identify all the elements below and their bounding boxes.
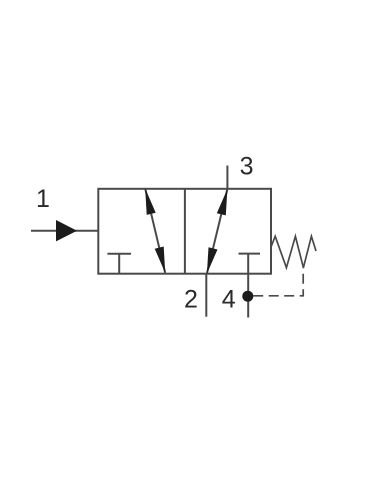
pilot line (dashed) <box>253 268 303 296</box>
svg-text:1: 1 <box>36 185 50 213</box>
arrowhead left-bottom <box>155 247 166 273</box>
blocked port T with port 4 wire <box>239 254 261 318</box>
wire port 1 <box>31 230 98 232</box>
flow path arrow (left position) <box>145 189 165 273</box>
arrowhead right-bottom <box>207 247 218 273</box>
arrowhead left-top <box>145 189 156 215</box>
position divider <box>184 189 186 274</box>
arrowhead right-top <box>217 189 228 215</box>
svg-text:2: 2 <box>184 286 198 314</box>
svg-text:4: 4 <box>222 286 236 314</box>
blocked port T (left position) <box>107 254 131 274</box>
flow arrow triangle port 1 <box>56 220 77 241</box>
wire port 2 <box>205 274 207 317</box>
valve body (two-position envelope) <box>98 189 271 274</box>
wire port 3 <box>226 166 228 190</box>
flow path arrow (right position) <box>207 189 228 274</box>
svg-text:3: 3 <box>240 153 254 181</box>
spring (return spring) <box>271 236 316 267</box>
junction dot node <box>242 291 253 302</box>
